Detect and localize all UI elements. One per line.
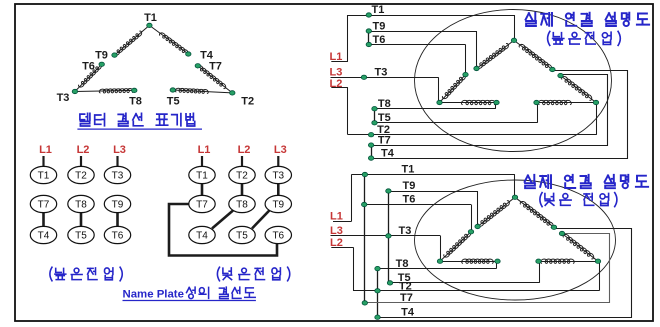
svg-text:T9: T9 (272, 200, 284, 211)
svg-text:T5: T5 (236, 231, 248, 242)
svg-text:L2: L2 (77, 144, 90, 156)
wire T5 bus (low) (390, 282, 539, 284)
winding T7-T2 (right lower) (561, 76, 597, 103)
node T8 bus (372, 107, 377, 111)
svg-text:L3: L3 (113, 144, 126, 156)
wire T5 rise (537, 103, 539, 123)
caption: delta connection notation (델타 결선 표기법) (80, 113, 195, 126)
svg-text:L1: L1 (198, 144, 211, 156)
terminal T2 (low) (229, 166, 255, 183)
wire L1 stub (high) (331, 61, 348, 63)
coil winding T3-T8 (99, 89, 133, 94)
wire T7-T2 lower-right side of delta (198, 66, 233, 93)
node T3 bus (361, 75, 366, 79)
wire T9 drop (low) (477, 191, 479, 227)
wire T1-T6-T7 tie (low) (364, 175, 366, 303)
wire T9-T6 tie (368, 31, 370, 45)
node delta vertex T3 (437, 100, 442, 104)
node T2 (230, 91, 235, 95)
terminal T9 (low) (265, 195, 291, 212)
node T7 bus (low) (362, 301, 367, 305)
wire T1-T7 tie (201, 183, 204, 196)
node T5 (170, 88, 175, 92)
svg-text:T2: T2 (241, 96, 254, 108)
svg-text:T5: T5 (167, 96, 180, 108)
wire T8 rise (495, 103, 497, 109)
wire T8 rise (low) (496, 261, 498, 268)
node delta apex T1 (511, 38, 516, 42)
svg-text:T3: T3 (57, 92, 70, 104)
svg-text:T8: T8 (396, 258, 409, 270)
node T9 winding (low) (475, 224, 480, 228)
caption high voltage (높은전압) (50, 267, 122, 281)
svg-text:T1: T1 (38, 171, 50, 182)
node T8 (132, 88, 137, 92)
svg-text:L2: L2 (238, 144, 251, 156)
terminal T7 (low) (189, 195, 215, 212)
svg-text:T9: T9 (373, 20, 386, 32)
terminal T2 (68, 166, 94, 183)
node T1 (147, 23, 152, 27)
terminal T1 (30, 166, 56, 183)
coil winding T5-T2 (175, 88, 208, 93)
wire T8-T5 tie (374, 109, 376, 123)
node vertex T2 (low) (595, 259, 600, 263)
wire T1 drop to apex (514, 15, 516, 40)
terminal T1 (low) (189, 166, 215, 183)
svg-text:T6: T6 (112, 231, 124, 242)
svg-text:T1: T1 (144, 12, 157, 24)
ellipse enclosure (high-voltage diagram) (415, 10, 612, 152)
svg-text:Name Plate: Name Plate (123, 289, 184, 301)
coil winding T6-T3 (79, 64, 102, 87)
node T9 winding (474, 66, 479, 70)
terminal T8 (68, 195, 94, 212)
wire T7 wrap (high) (372, 75, 608, 146)
wire L2 to T2 (80, 156, 82, 167)
node T7 bus (368, 143, 373, 147)
node T9 bus (low) (386, 189, 391, 193)
wire L1 riser to T1 (347, 15, 349, 62)
svg-text:T9: T9 (112, 200, 124, 211)
wire L1 stub (low) (333, 221, 351, 223)
winding T5-T2 (bottom right) (537, 102, 597, 104)
winding T3-T8 (bottom left) (440, 102, 497, 104)
node T4 winding (low) (551, 225, 556, 229)
svg-text:T3: T3 (112, 171, 124, 182)
wire T6-T3 lower-left side of delta (75, 64, 102, 91)
wire T2-T8 tie (241, 183, 244, 196)
node T3 (72, 89, 77, 93)
winding T1-T4 (right upper, low) (515, 197, 554, 227)
svg-text:T2: T2 (75, 171, 87, 182)
wire T7 wrap (low) (365, 234, 610, 303)
terminal T3 (low) (265, 166, 291, 183)
wire T8 bus (low) (378, 268, 497, 270)
wire T8-T4 diagonal tie (212, 211, 233, 229)
node T3 bus (low) (386, 234, 391, 238)
wire T9-T6 tie (116, 212, 119, 227)
node T1 bus (366, 13, 371, 17)
node T4 (186, 52, 191, 56)
svg-text:T2: T2 (399, 280, 412, 292)
node T5 bus (low) (387, 281, 392, 285)
svg-text:T8: T8 (236, 200, 248, 211)
svg-text:T7: T7 (38, 200, 50, 211)
terminal T4 (low) (189, 226, 215, 243)
wire T2 rise to vertex (low) (599, 261, 601, 291)
node T1 bus (low) (362, 172, 367, 176)
wire T4 wrap (low) (378, 229, 632, 318)
wire T8-T5 tie (80, 212, 83, 227)
wire T7-T6 wrap-around tie (169, 204, 277, 256)
wire T2 bus (low) (353, 290, 599, 292)
wire T3-T8 bottom-left winding (75, 90, 134, 91)
terminal T8 (low) (229, 195, 255, 212)
node T9 (112, 53, 117, 57)
wire T6 bus (low) (364, 204, 471, 206)
node T9 bus (366, 29, 371, 33)
coil winding T7-T2 (197, 66, 226, 89)
wire L3 to T3 (277, 156, 279, 167)
terminal T4 (30, 226, 56, 243)
svg-text:T6: T6 (373, 34, 386, 46)
wire T6 drop (low) (471, 205, 473, 232)
caption low voltage (낮은전압) (217, 267, 289, 281)
wire T1-T4 upper-right side of delta (149, 25, 188, 54)
title: actual connection diagram (low) (525, 175, 649, 188)
svg-text:T7: T7 (209, 60, 222, 72)
svg-text:T1: T1 (372, 4, 385, 16)
wire T9 drop (476, 31, 478, 69)
svg-text:L3: L3 (330, 225, 343, 237)
wire L3 to T3 (116, 156, 118, 167)
wire L2 riser to T2 (347, 88, 349, 135)
node delta vertex T2 (593, 100, 598, 104)
wire T6 drop (465, 45, 467, 75)
winding T3-T8 (bottom left, low) (440, 261, 498, 263)
node T5 bus (372, 121, 377, 125)
wire T4 wrap (high) (372, 71, 628, 159)
svg-text:T3: T3 (272, 171, 284, 182)
wire L3/T3 bus (low) (331, 235, 441, 237)
svg-text:T4: T4 (381, 147, 395, 159)
wire L3/T3 bus (high) (331, 77, 439, 79)
wire L1 riser (low) (351, 175, 353, 222)
terminal T5 (low) (229, 226, 255, 243)
wire T6 bus (high) (369, 44, 466, 46)
wire T2 bus (high) (348, 134, 597, 136)
winding T1-T9 (left upper, low) (478, 197, 515, 226)
svg-text:T1: T1 (196, 171, 208, 182)
terminal T9 (104, 195, 130, 212)
svg-text:T4: T4 (196, 231, 208, 242)
node T6 bus (366, 42, 371, 46)
node vertex T3 (low) (437, 259, 442, 263)
node T8 winding (low) (495, 259, 500, 263)
terminal T7 (30, 195, 56, 212)
node T5 winding (534, 100, 539, 104)
node delta apex (low) (512, 195, 517, 199)
subtitle low voltage (540, 193, 617, 207)
terminal T6 (104, 226, 130, 243)
node T4 bus (368, 156, 373, 160)
terminal T3 (104, 166, 130, 183)
wire T9 bus (low) (388, 191, 477, 193)
svg-text:T2: T2 (236, 171, 248, 182)
node T6 (99, 62, 104, 66)
wire T1-T9 upper-left side of delta (115, 25, 150, 55)
wire L2 riser (low) (353, 247, 355, 291)
svg-text:T3: T3 (375, 67, 388, 79)
ellipse enclosure (low-voltage diagram) (415, 180, 616, 300)
svg-text:T5: T5 (378, 112, 391, 124)
node T6 winding (low) (468, 230, 473, 234)
wire L2 stub (high) (331, 87, 348, 89)
wire T9 bus (high) (369, 31, 477, 33)
wire L2 to T2 (241, 156, 243, 167)
node T7 (195, 64, 200, 68)
wire T1 bus (low) (351, 174, 515, 176)
svg-text:L3: L3 (274, 144, 287, 156)
svg-text:T5: T5 (75, 231, 87, 242)
node T6 winding (463, 72, 468, 76)
terminal T6 (low) (265, 226, 291, 243)
node T8 winding (494, 100, 499, 104)
coil winding T1-T4 (160, 33, 189, 55)
winding T7-T2 (right lower, low) (562, 234, 598, 262)
wire T7-T4 tie (42, 212, 45, 227)
wire T5 rise (low) (539, 261, 541, 283)
node T6 bus (low) (362, 202, 367, 206)
node T2 bus (low) (375, 289, 380, 293)
svg-text:T8: T8 (378, 98, 391, 110)
node T8 bus (low) (375, 266, 380, 270)
svg-text:T3: T3 (399, 225, 412, 237)
svg-text:T6: T6 (272, 231, 284, 242)
node T5 winding (low) (536, 259, 541, 263)
svg-text:T8: T8 (75, 200, 87, 211)
title: actual connection diagram (high) (526, 13, 650, 26)
node T2 bus (368, 133, 373, 137)
wire T9-T5 diagonal tie (252, 211, 269, 229)
winding T1-T9 (left upper) (477, 40, 515, 68)
wire T1 drop to apex (low) (514, 175, 516, 198)
wire T5-T2 bottom-right winding (173, 90, 233, 93)
wire T5 bus (high) (375, 122, 538, 124)
wire T3-T9 tie (277, 183, 280, 196)
svg-text:T6: T6 (82, 60, 95, 72)
svg-text:T4: T4 (38, 231, 50, 242)
wire T8 bus (high) (375, 108, 496, 110)
wire L1 to T1 (42, 156, 44, 167)
winding T6-T3 (left lower) (440, 75, 466, 103)
wire L2 stub (low) (331, 247, 353, 249)
subtitle high voltage (548, 31, 621, 45)
node T7 winding (558, 73, 563, 77)
svg-text:T9: T9 (403, 180, 416, 192)
winding T6-T3 (left lower, low) (440, 232, 471, 261)
wire T3 drop to vertex (low) (440, 236, 442, 261)
svg-text:T6: T6 (403, 194, 416, 206)
svg-text:L2: L2 (330, 78, 343, 90)
wire T9-T3-T5 tie (low) (388, 191, 390, 283)
svg-text:L2: L2 (330, 237, 343, 249)
wire T8-T2-T4 tie (low) (377, 269, 379, 318)
svg-text:L1: L1 (330, 211, 343, 223)
node T7 winding (low) (559, 231, 564, 235)
wire T2 rise to vertex (596, 103, 598, 135)
wire L1 to T1 (201, 156, 203, 167)
svg-text:L1: L1 (330, 51, 343, 63)
svg-text:T7: T7 (400, 292, 413, 304)
terminal T5 (68, 226, 94, 243)
svg-text:T9: T9 (95, 50, 108, 62)
winding T5-T2 (bottom right, low) (539, 261, 599, 263)
svg-text:T4: T4 (401, 306, 415, 318)
wire T7-T4 tie (371, 145, 373, 158)
svg-text:L1: L1 (39, 144, 52, 156)
node T4 winding (550, 67, 555, 71)
svg-text:T7: T7 (378, 134, 391, 146)
svg-text:T1: T1 (402, 163, 415, 175)
wire T1 bus (high) (348, 15, 514, 17)
node T4 bus (low) (375, 315, 380, 319)
winding T1-T4 (right upper) (514, 40, 552, 69)
wire T3 drop to vertex (438, 77, 440, 102)
svg-text:T7: T7 (196, 200, 208, 211)
svg-text:T8: T8 (129, 96, 142, 108)
coil winding T1-T9 (114, 31, 142, 55)
